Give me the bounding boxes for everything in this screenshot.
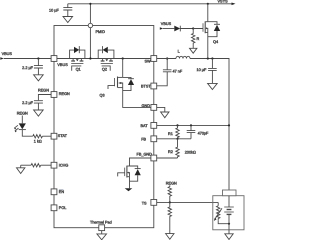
pin POL <box>51 205 57 211</box>
svg-text:Q1: Q1 <box>76 67 81 72</box>
wire VBUS input <box>4 58 51 60</box>
node junction TS <box>169 201 171 203</box>
transistor Q2 <box>98 46 114 71</box>
wire VBUS row internal <box>57 58 151 60</box>
battery tab <box>223 190 237 196</box>
pin PMID <box>88 23 92 27</box>
svg-text:SW: SW <box>145 59 152 64</box>
node junction battery bottom <box>228 223 230 225</box>
svg-text:BTST: BTST <box>141 84 151 89</box>
node junction R gate <box>192 27 194 29</box>
wire thermistor bottom <box>218 220 229 224</box>
svg-text:L: L <box>178 49 180 54</box>
svg-text:POL: POL <box>59 206 67 211</box>
battery cell symbol <box>228 196 230 207</box>
node junction Q3 tap <box>122 57 124 59</box>
svg-text:FB_GND: FB_GND <box>137 152 153 157</box>
svg-text:10 µF: 10 µF <box>197 68 207 73</box>
ground C3 <box>34 110 44 116</box>
pin BTST <box>151 83 157 89</box>
wire ICHG ground <box>20 165 22 168</box>
wire top rail PMID/VSYS <box>68 3 234 5</box>
node junction Q4 drain <box>207 3 209 5</box>
svg-text:PMID: PMID <box>96 29 106 34</box>
svg-text:200kΩ: 200kΩ <box>185 150 196 155</box>
wire FB_GND to R2 <box>157 157 178 159</box>
pin GND <box>151 105 157 111</box>
resistor R2 <box>176 139 179 158</box>
svg-text:ICHG: ICHG <box>59 163 69 168</box>
capacitor C4 47nF <box>157 59 172 86</box>
svg-text:Q4: Q4 <box>213 40 218 45</box>
wire ICHG <box>21 164 31 166</box>
pin STAT <box>51 133 57 139</box>
transistor Q4 <box>193 4 220 59</box>
svg-text:VBUS: VBUS <box>161 22 171 27</box>
svg-text:REGN: REGN <box>59 92 70 97</box>
capacitor C1 10uF <box>63 4 72 17</box>
svg-text:REGN: REGN <box>38 88 49 93</box>
pin ICHG <box>51 162 57 168</box>
pin VBUS <box>51 56 57 62</box>
svg-text:470pF: 470pF <box>198 131 209 136</box>
wire LED to resistor <box>22 130 33 137</box>
resistor R6 ICHG <box>31 164 41 167</box>
ground C1 <box>63 17 73 23</box>
capacitor C2 2.2uF <box>34 59 43 75</box>
ground battery <box>225 234 233 240</box>
node junction R1 top <box>176 124 178 126</box>
VBUS right arrow <box>160 27 163 30</box>
ground C2 <box>34 75 44 81</box>
svg-text:Q3: Q3 <box>100 93 105 98</box>
node junction BAT rail <box>228 124 230 126</box>
svg-text:REGN: REGN <box>166 181 177 186</box>
node junction C2 <box>37 57 39 59</box>
pin EN <box>51 189 57 195</box>
capacitor C5 10uF <box>208 59 217 84</box>
resistor R gate pulldown <box>192 29 195 49</box>
svg-text:TS: TS <box>142 201 147 206</box>
ground R <box>190 48 197 53</box>
svg-text:REGN: REGN <box>17 111 28 116</box>
svg-text:2.2 µF: 2.2 µF <box>22 100 33 105</box>
wire BAT to battery rail <box>157 124 229 126</box>
svg-text:BAT: BAT <box>141 123 148 128</box>
resistor R4 TS bottom <box>168 202 171 233</box>
wire TS row <box>157 201 219 203</box>
node junction PMID tap <box>89 57 91 59</box>
svg-text:VBUS: VBUS <box>2 51 12 56</box>
pin TS <box>151 200 157 206</box>
wire thermal pad ground <box>101 231 103 234</box>
ground thermal pad <box>97 234 107 240</box>
pin REGN <box>51 92 57 98</box>
pin FB_GND <box>151 155 157 161</box>
pin Thermal Pad <box>99 225 105 231</box>
svg-text:R2: R2 <box>168 150 173 155</box>
node junction C6 top <box>190 124 192 126</box>
svg-text:R: R <box>197 37 200 42</box>
ground GND pin <box>161 112 169 118</box>
node junction Q4 source <box>207 57 209 59</box>
VSYS output arrow <box>232 3 236 6</box>
pin BAT <box>151 123 157 129</box>
resistor R1 <box>176 125 179 138</box>
pin FB <box>151 136 157 142</box>
node junction R2 top <box>176 138 178 140</box>
thermistor RT wire in <box>217 202 219 205</box>
node junction top cap <box>89 3 91 5</box>
svg-text:2.2 µF: 2.2 µF <box>22 65 33 70</box>
wire diode to gate <box>180 28 203 30</box>
wire Q3 source to GND pin <box>123 88 151 108</box>
svg-text:VSYS: VSYS <box>218 0 228 3</box>
wire PMID internal drop <box>89 28 91 59</box>
wire inductor to corner <box>190 59 229 191</box>
ground C5 <box>208 83 218 89</box>
ground R4 <box>166 234 174 240</box>
svg-text:47 nF: 47 nF <box>173 69 183 74</box>
ground ICHG <box>17 168 25 174</box>
diode D1 <box>174 26 180 32</box>
transistor Q5 <box>118 166 141 189</box>
wire SW to inductor to battery <box>157 58 176 60</box>
svg-text:FB: FB <box>141 137 146 142</box>
wire battery to ground <box>228 230 230 234</box>
svg-text:10 µF: 10 µF <box>49 8 59 13</box>
VBUS input arrow <box>0 57 4 60</box>
svg-text:STAT: STAT <box>58 134 67 139</box>
capacitor C3 2.2uF <box>34 101 43 110</box>
wire GND pin to ground <box>157 107 165 112</box>
ground Q5 solid <box>125 188 133 191</box>
LED D2 <box>21 116 23 124</box>
transistor Q1 <box>70 46 85 71</box>
capacitor C6 470pF <box>187 125 196 138</box>
battery pack box BT1 <box>213 196 244 230</box>
thermistor RT <box>217 206 220 220</box>
node junction C5 <box>211 57 213 59</box>
svg-text:EN: EN <box>59 189 64 194</box>
wire resistor to STAT <box>42 135 51 137</box>
pin SW <box>151 56 157 62</box>
wire FB_GND internal to Q5 <box>130 158 151 166</box>
wire REGN to cap <box>38 95 51 101</box>
resistor R3 TS top <box>168 185 171 202</box>
wire PMID riser <box>89 4 91 24</box>
wire VBUS to diode <box>163 28 174 30</box>
svg-text:GND: GND <box>142 103 151 108</box>
inductor L <box>176 56 190 58</box>
svg-text:R1: R1 <box>168 132 173 137</box>
wire FB row <box>157 138 191 140</box>
resistor R5 1k <box>33 135 43 138</box>
transistor Q3 <box>100 59 135 98</box>
IC U1 box <box>54 26 154 228</box>
svg-text:Q2: Q2 <box>102 67 107 72</box>
node junction C4 <box>166 57 168 59</box>
wire resistor to ICHG pin <box>41 164 51 166</box>
svg-text:1 kΩ: 1 kΩ <box>34 139 42 144</box>
svg-text:VBUS: VBUS <box>57 63 67 68</box>
svg-text:Thermal Pad: Thermal Pad <box>90 220 112 225</box>
